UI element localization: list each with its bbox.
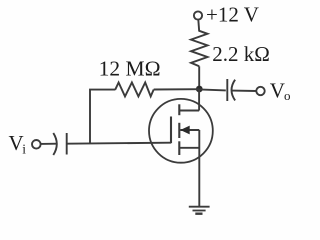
wire Vi to C1 (41, 143, 58, 145)
svg-text:12 MΩ: 12 MΩ (99, 57, 161, 81)
resistor R2 12 MOhm zigzag (115, 83, 154, 97)
wire C1 to gate (through feedback junction) (67, 143, 171, 144)
wire VDD terminal to R1 (197, 20, 200, 32)
Q1 channel bottom dash (178, 141, 180, 155)
svg-text:+12 V: +12 V (206, 3, 259, 27)
svg-text:o: o (284, 88, 291, 103)
svg-text:2.2 kΩ: 2.2 kΩ (212, 42, 270, 66)
wire R1 to drain node (198, 66, 200, 89)
capacitor C1 curved plate (53, 133, 57, 155)
wire source/substrate to ground (198, 130, 200, 206)
terminal +12 V (194, 11, 202, 19)
capacitor C2 straight plate (226, 79, 228, 101)
capacitor C2 curved plate (232, 80, 236, 101)
capacitor C1 straight plate (66, 133, 68, 155)
wire drain lead from node (198, 89, 200, 111)
terminal Vo (256, 87, 264, 95)
Q1 channel top dash (178, 104, 180, 115)
Q1 substrate arrow (180, 129, 199, 131)
Q1 source bar (179, 147, 199, 149)
resistor R1 2.2 kOhm zigzag (191, 31, 208, 67)
Q1 drain bar (179, 110, 199, 112)
transistor Q1 body circle (149, 99, 213, 163)
Q1 gate bar (170, 117, 172, 144)
svg-text:i: i (22, 141, 26, 156)
wire R2 to drain node (154, 88, 199, 90)
Q1 channel middle dash (178, 123, 180, 138)
svg-text:V: V (270, 78, 285, 102)
wire node to output capacitor (199, 89, 226, 90)
wire C2 to Vo terminal (232, 90, 256, 92)
node drain junction dot (196, 86, 203, 93)
wire feedback vertical (gate node up) (90, 90, 115, 144)
terminal Vi (32, 140, 41, 149)
ground symbol (189, 206, 210, 208)
